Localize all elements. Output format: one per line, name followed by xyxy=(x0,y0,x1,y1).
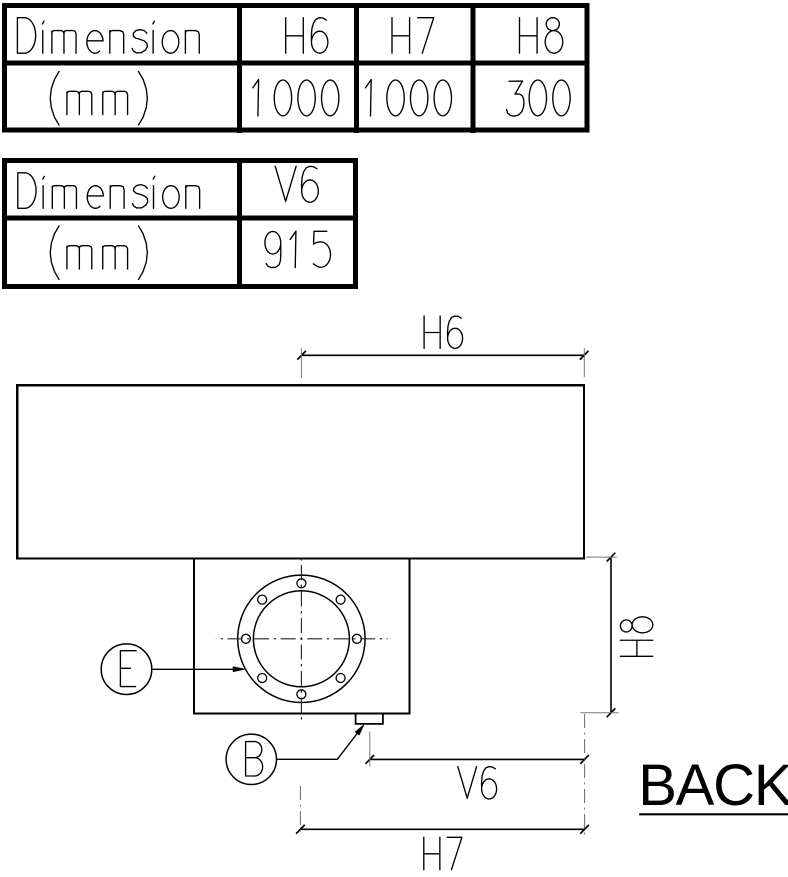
svg-text:BACK: BACK xyxy=(638,753,788,818)
